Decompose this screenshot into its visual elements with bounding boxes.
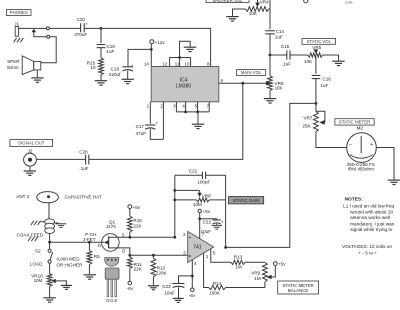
svg-text:C16: C16 [322, 77, 331, 82]
wire contact A to C20 [50, 27, 80, 29]
wire R14 to op-amp pin 1 [204, 253, 209, 288]
svg-text:22K: 22K [133, 223, 142, 228]
svg-text:25K: 25K [302, 124, 311, 129]
terminal -6v (R11) [128, 281, 132, 285]
svg-text:14: 14 [144, 61, 149, 66]
label SPEAKER VOL (cut at top) [206, 0, 249, 3]
wire source to op-amp pin 2 [109, 236, 175, 238]
svg-text:LM380: LM380 [176, 84, 192, 90]
svg-text:22K: 22K [134, 266, 143, 271]
svg-text:VR7: VR7 [303, 116, 312, 121]
svg-text:STATIC METER: STATIC METER [339, 120, 371, 125]
svg-text:1M: 1M [254, 276, 261, 281]
jack switch arrow [32, 29, 37, 33]
svg-text:CAPACITIVE HAT: CAPACITIVE HAT [65, 195, 102, 200]
wire drain to op-amp pin 3 [130, 254, 188, 256]
wire +12v branch to C18 [128, 49, 151, 66]
svg-text:-6v: -6v [189, 293, 196, 298]
wire VR4 right to C14 [269, 8, 270, 10]
wire speaker to ground [36, 70, 38, 78]
svg-text:+: + [370, 142, 373, 148]
ground (R12) [148, 285, 159, 287]
wire pin 5 to R13 [211, 249, 231, 262]
svg-text:C19: C19 [106, 44, 115, 49]
wire VR7 to meter minus [316, 132, 347, 148]
svg-text:−: − [349, 142, 352, 148]
svg-text:D: D [106, 298, 109, 303]
svg-text:MAIN VOL: MAIN VOL [241, 70, 262, 75]
svg-text:+6v: +6v [132, 205, 140, 210]
svg-text:C18: C18 [111, 67, 120, 72]
contact B (circle) [47, 35, 50, 38]
op-amp U2 741 body [188, 231, 214, 262]
node junction +12v [150, 48, 153, 51]
svg-text:C22: C22 [203, 219, 212, 224]
svg-text:+: + [131, 63, 134, 68]
capacitor C19 1uF [100, 28, 102, 43]
node junction C19 tap [100, 27, 103, 30]
ground (C22) [211, 224, 222, 226]
wire +12v to pin 14 [150, 49, 152, 66]
wire +5v to pin 7 [199, 213, 201, 239]
svg-text:STATIC VOL: STATIC VOL [307, 39, 332, 44]
svg-text:SPEAKER VOL: SPEAKER VOL [212, 0, 243, 3]
label SIGNAL OUT [10, 139, 53, 146]
ground (IC4 pins 3 4 5 7) [192, 123, 204, 125]
svg-text:1uF: 1uF [275, 34, 283, 39]
svg-text:R10: R10 [133, 218, 142, 223]
package outline top view [105, 258, 119, 267]
svg-text:C28: C28 [79, 149, 88, 154]
svg-text:470uF: 470uF [74, 32, 87, 37]
potentiometer VR6 10K [266, 81, 270, 85]
svg-text:1uF: 1uF [106, 49, 114, 54]
svg-text:10K: 10K [275, 85, 283, 90]
potentiometer VR10 10M [49, 263, 51, 273]
ground (VR6) [264, 98, 276, 100]
wire node to output loop (left+down) [226, 103, 316, 247]
package legs [107, 279, 109, 297]
svg-text:OR HIGHER: OR HIGHER [56, 263, 83, 268]
svg-text:STATIC GAIN: STATIC GAIN [233, 198, 259, 203]
svg-text:SPKR: SPKR [7, 59, 20, 64]
svg-text:J-FET: J-FET [83, 237, 96, 242]
label MAIN VOL [237, 70, 266, 76]
cut terminal circle at top edge [304, 0, 308, 3]
svg-text:12: 12 [162, 61, 167, 66]
wire VR5 wiper to C16 [315, 57, 317, 74]
wire gate [50, 241, 104, 243]
svg-text:+5v: +5v [203, 209, 211, 214]
svg-text:+: + [85, 22, 88, 27]
svg-text:220K: 220K [156, 270, 168, 275]
ground (speaker) [31, 77, 43, 79]
terminal +5v (VR9) [273, 262, 277, 266]
svg-text:S: S [114, 298, 117, 303]
node junction C22 [198, 217, 201, 220]
svg-text:VR5: VR5 [312, 45, 321, 50]
ground (C18) [122, 78, 134, 80]
feedback vertical wire [174, 175, 176, 237]
wire VR5 right to ground [323, 55, 339, 61]
ground (VR4) [226, 16, 238, 18]
wire J1 tip to switch contact [19, 27, 47, 29]
node junction signal-out tap [241, 82, 244, 85]
wire VR10 wiper to ground [56, 281, 67, 285]
svg-text:mandatory, I just wan: mandatory, I just wan [350, 221, 395, 226]
svg-text:10K: 10K [249, 11, 258, 16]
capacitor C17 47uF between pins 1 and 2 [149, 102, 151, 124]
svg-text:1M: 1M [235, 265, 242, 270]
resistor R10 22K [129, 209, 131, 217]
label STATIC METER [335, 119, 374, 125]
svg-text:VR4: VR4 [260, 0, 269, 4]
wire pin 4 to -6v [191, 260, 193, 288]
label STATIC VOL [302, 39, 336, 45]
svg-text:10: 10 [90, 65, 96, 70]
ground (VR10 wiper) [61, 284, 72, 286]
wire R15 to ground [100, 75, 102, 81]
svg-text:220uf: 220uf [109, 72, 121, 77]
wire VR10 bottom to ground [49, 286, 51, 297]
svg-text:741: 741 [193, 245, 202, 251]
node junction gate wire [48, 241, 51, 244]
label STATIC GAIN (highlighted) [229, 197, 264, 204]
svg-text:VR8: VR8 [202, 194, 211, 199]
terminal +6v [128, 205, 132, 209]
svg-text:LOAD: LOAD [30, 261, 43, 266]
svg-text:10: 10 [185, 61, 190, 66]
label STATIC METER BALANCE [278, 281, 319, 294]
wire VR9 bottom to R14 [226, 282, 265, 288]
wire tap down to C28 line [89, 83, 243, 159]
ground (meter) [388, 179, 400, 181]
node junction drain/pin3 [128, 254, 131, 257]
package outline front view TO-92 [105, 268, 119, 279]
svg-text:J2: J2 [28, 148, 33, 153]
terminal -6v (pin 4) [191, 288, 195, 292]
wire R13 to VR9 [245, 261, 265, 263]
terminal +5v (pin 7) [198, 209, 201, 212]
svg-text:R13: R13 [234, 255, 243, 260]
svg-text:-6v: -6v [127, 286, 134, 291]
svg-text:10uF: 10uF [201, 229, 212, 234]
capacitor C22 10uF [200, 218, 217, 220]
label PHONES [7, 10, 32, 16]
svg-text:J1: J1 [14, 21, 19, 26]
svg-text:antenna works well: antenna works well [350, 215, 390, 220]
svg-text:S: S [122, 233, 125, 238]
svg-text:J176: J176 [106, 224, 116, 229]
svg-text:L1 I used an old low freq: L1 I used an old low freq [343, 203, 394, 208]
ground (VR5) [332, 60, 344, 62]
node junction output/feedback [224, 246, 227, 249]
wire meter plus to ground [377, 148, 394, 180]
node A junction [269, 54, 272, 57]
svg-text:11: 11 [175, 61, 180, 66]
svg-text:10M: 10M [34, 278, 43, 283]
ground (coax shield right) [55, 222, 59, 224]
resistor R12 220K [152, 254, 155, 257]
contact A (circle) [46, 27, 49, 30]
svg-text:100K: 100K [209, 290, 221, 295]
svg-text:8ohm: 8ohm [7, 65, 19, 70]
ground (coax shield left, hash) [41, 221, 45, 223]
wire jack arrow to speaker contact [34, 32, 47, 37]
potentiometer VR8 10M [173, 189, 176, 192]
svg-text:+5v: +5v [278, 261, 286, 266]
wire VR4 left to ground [233, 9, 246, 16]
node junction C23 [191, 275, 194, 278]
svg-text:G: G [98, 243, 102, 248]
svg-text:C21: C21 [189, 169, 198, 174]
node junction pin2/feedback [173, 236, 176, 239]
wire contact B to speaker [41, 37, 56, 63]
ground (VR10 bottom) [43, 297, 55, 299]
wire C20 to IC4 pin 8 [85, 28, 211, 66]
svg-text:10M: 10M [193, 202, 202, 207]
ground (J2) [24, 170, 36, 172]
ground (R15) [95, 80, 107, 82]
wires pins 3 4 5 7 tie bar to ground [175, 102, 177, 112]
ground (R5) [84, 274, 96, 276]
resistor R11 22K [129, 255, 131, 257]
svg-text:ANT 2: ANT 2 [16, 194, 29, 199]
wire tie bar to ground [180, 41, 191, 57]
svg-text:M2: M2 [357, 125, 364, 130]
svg-text:+ - 5 to +: + - 5 to + [358, 251, 377, 256]
wire C21 to output vertical [206, 175, 226, 247]
svg-text:NOTES:: NOTES: [345, 196, 364, 202]
svg-text:VR9: VR9 [251, 271, 260, 276]
capacitor C16 1uF [312, 74, 321, 76]
svg-text:signal while trying to: signal while trying to [350, 227, 393, 232]
wire C16 down to VR7 node [315, 79, 317, 104]
svg-text:C17: C17 [136, 124, 145, 129]
wire J2 to ground [29, 166, 31, 171]
svg-text:R5: R5 [94, 254, 100, 259]
ground (C23) [173, 297, 184, 299]
svg-text:10K: 10K [304, 59, 313, 64]
svg-text:S2: S2 [35, 248, 41, 253]
svg-text:PHONES: PHONES [10, 10, 28, 15]
svg-text:BALANCE: BALANCE [288, 288, 309, 293]
IC U-IC4 LM380 body [151, 67, 219, 102]
wire VR9 wiper to +5v [272, 265, 276, 277]
node junction R5 [88, 241, 91, 244]
svg-text:10K: 10K [345, 0, 354, 5]
node junction R10/source [128, 236, 131, 239]
ground (J1 sleeve, chassis hash) [14, 38, 17, 43]
svg-text:+12v: +12v [155, 40, 166, 45]
ground (chassis hash lower) [28, 237, 31, 242]
svg-text:C20: C20 [77, 17, 86, 22]
capacitor C23 10uF [179, 276, 193, 284]
svg-text:C15: C15 [281, 44, 290, 49]
svg-text:1uF: 1uF [320, 83, 328, 88]
node junction VR7/C16/meter-loop [315, 102, 318, 105]
ground (IC4 pins 12 11 10) [184, 46, 196, 48]
wires pins 12 11 10 tie bar [169, 58, 171, 67]
resistor R15 10 [100, 48, 102, 58]
wire feedthrough to gate node [49, 233, 51, 242]
terminal +12v [150, 40, 154, 44]
svg-text:.1uF: .1uF [79, 166, 88, 171]
svg-text:D: D [122, 248, 125, 253]
coax feedthrough insulator stack [45, 219, 55, 225]
wire C14 to node A [269, 34, 271, 55]
svg-text:4,000 MEG: 4,000 MEG [56, 257, 80, 262]
svg-text:wound with about 20: wound with about 20 [350, 209, 393, 214]
svg-text:VOLTAGES: 12 volts on: VOLTAGES: 12 volts on [342, 244, 392, 249]
wire hat to feedthrough [48, 203, 50, 220]
wire drain down [109, 248, 130, 255]
wire VR6 to ground [269, 91, 271, 99]
svg-text:IRM 450ohm: IRM 450ohm [348, 167, 374, 172]
svg-text:SIGNAL OUT: SIGNAL OUT [18, 141, 45, 146]
svg-text:.1uF: .1uF [282, 61, 291, 66]
svg-text:10uF: 10uF [164, 291, 175, 296]
svg-text:100pF: 100pF [197, 180, 210, 185]
svg-text:COAX FEED: COAX FEED [17, 233, 44, 238]
svg-text:47uF: 47uF [136, 131, 147, 136]
